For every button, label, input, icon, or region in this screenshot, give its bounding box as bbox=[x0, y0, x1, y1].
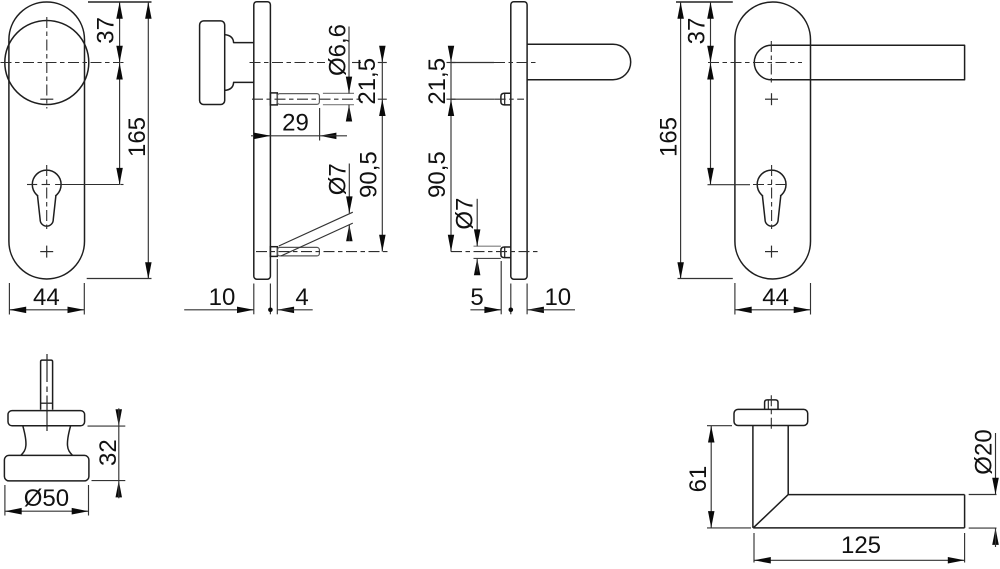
view 1: bottom screw cross bbox=[46, 246, 48, 258]
svg-text:165: 165 bbox=[124, 117, 151, 157]
view 3: bottom screw thin lines bbox=[474, 245, 501, 247]
view 4: top screw cross bbox=[771, 93, 773, 105]
view 3: dim 21,5 arrows at axis bbox=[450, 47, 452, 63]
svg-text:61: 61 bbox=[685, 466, 712, 493]
view 3: bottom screw centerline bbox=[451, 251, 540, 253]
view 1: keyhole PZ bbox=[32, 170, 61, 199]
view 2: dim 10 line and arrow bbox=[184, 309, 254, 311]
svg-text:125: 125 bbox=[841, 532, 881, 559]
view 2: top screw shank bbox=[277, 94, 319, 105]
view 3: dim column 21,5/90,5 bbox=[450, 63, 452, 252]
view 5: knob rose slab bbox=[8, 411, 85, 426]
view 2: dim 29 line and arrows bbox=[251, 135, 271, 137]
svg-text:37: 37 bbox=[683, 18, 710, 45]
view 1: knob horizontal centerline bbox=[1, 62, 120, 64]
svg-text:21,5: 21,5 bbox=[424, 58, 451, 105]
view 3: top screw head bbox=[501, 93, 511, 105]
view 6: spindle centerline bbox=[770, 395, 772, 431]
view 2: bottom screw head bbox=[270, 247, 277, 257]
view 2: knob neck top bbox=[225, 35, 254, 43]
view 3: dim 5 line and arrow bbox=[470, 309, 501, 311]
view 2: dim 4 line and arrow bbox=[277, 307, 294, 314]
view 1: dim 44 extension lines bbox=[8, 283, 10, 315]
svg-text:44: 44 bbox=[762, 284, 789, 311]
view 1: top extension line bbox=[88, 1, 152, 3]
view 4: lever hub and grip bbox=[754, 45, 964, 80]
view 4: dim 44 line bbox=[735, 309, 811, 311]
view 6: dim 125 line bbox=[754, 559, 965, 561]
svg-text:29: 29 bbox=[282, 110, 309, 137]
view 6: lever neck and grip outline bbox=[753, 426, 965, 528]
view 4: dim axis-to-keyhole line bbox=[710, 63, 712, 185]
view 4: hub vertical centerline bbox=[770, 41, 772, 84]
view 3: dim 10 line and arrow bbox=[527, 307, 544, 314]
view 3: top screw centerline / extension bbox=[451, 98, 495, 100]
view 2: bottom screw centerline / 90,5 extension bbox=[256, 251, 388, 253]
view 2: knob axis centerline bbox=[250, 62, 326, 64]
view 5: spindle bbox=[41, 360, 53, 410]
view 1: dim 37 line bbox=[119, 2, 121, 63]
view 5: dim Ø50 extension lines bbox=[4, 485, 6, 516]
view 2: top screw head (M6) bbox=[270, 93, 277, 105]
view 1: bottom extension line for 165 bbox=[87, 278, 152, 280]
view 3: dim 90,5 bottom arrow bbox=[448, 235, 454, 252]
view 6: dim 61 line and arrows bbox=[710, 426, 712, 528]
view 3: lever axis centerline bbox=[451, 62, 494, 64]
view 2: knob head bbox=[200, 21, 225, 105]
view 4: dim 44 extension lines bbox=[734, 283, 736, 315]
svg-text:10: 10 bbox=[544, 284, 571, 311]
view 1: knob plate front - plate outline bbox=[9, 2, 85, 279]
svg-text:Ø6,6: Ø6,6 bbox=[325, 24, 352, 76]
view 2: top screw centerline bbox=[252, 98, 361, 100]
view 2: separator dot bbox=[268, 308, 273, 313]
view 3: lever handle side bbox=[527, 44, 630, 79]
view 5: knob neck left side bbox=[21, 426, 26, 456]
view 2: plate side outline bbox=[254, 2, 271, 280]
view 2: top screw thread continuation thin lines bbox=[323, 92, 354, 94]
view 6: dim 125 extension lines bbox=[753, 533, 755, 563]
view 2: dim Ø6,6 leader line and arrows bbox=[348, 27, 350, 94]
view 4: keyhole PZ bbox=[757, 170, 786, 199]
view 2: dim 29 extension line at screw tip bbox=[319, 108, 321, 141]
view 5: knob head slab bbox=[4, 455, 89, 481]
view 1: top screw cross bbox=[40, 98, 53, 100]
svg-text:Ø7: Ø7 bbox=[324, 163, 351, 195]
view 5: knob neck right side bbox=[67, 426, 72, 456]
view 3: separator dot bbox=[509, 308, 514, 313]
view 4: hub horizontal centerline bbox=[708, 62, 802, 64]
svg-text:Ø50: Ø50 bbox=[24, 485, 69, 512]
view 4: dim 165 line bbox=[680, 2, 682, 279]
svg-text:Ø7: Ø7 bbox=[451, 198, 478, 230]
view 6: spindle stub bbox=[765, 400, 778, 410]
svg-text:32: 32 bbox=[95, 439, 122, 466]
view 6: lever rose slab bbox=[734, 409, 808, 425]
svg-text:5: 5 bbox=[470, 284, 483, 311]
svg-text:10: 10 bbox=[209, 284, 236, 311]
view 1: keyhole horizontal centerline / extension bbox=[27, 184, 37, 186]
view 1: knob vertical centerline bbox=[46, 17, 48, 109]
view 2: knob neck bottom bbox=[225, 82, 254, 90]
view 4: top extension line bbox=[676, 1, 733, 3]
view 6: dim Ø20 line and arrows bbox=[995, 433, 997, 495]
view 2: bottom screw shank bbox=[277, 247, 319, 256]
view 3: plate side outline bbox=[511, 2, 527, 280]
view 5: dim 32 extension lines bbox=[88, 425, 126, 427]
view 3: dim 5/10 extension lines bbox=[500, 261, 502, 314]
view 5: spindle tick bbox=[41, 402, 53, 404]
view 2: dim 10/4 extension lines bbox=[253, 284, 255, 315]
svg-text:165: 165 bbox=[655, 117, 682, 157]
view 1: dim 44 line with arrows bbox=[9, 309, 84, 311]
view 5: dim 32 line and arrows bbox=[118, 426, 120, 481]
view 4: bottom extension line bbox=[678, 278, 733, 280]
view 5: spindle centerline bbox=[46, 354, 48, 382]
view 4: plate outline bbox=[735, 2, 811, 279]
view 6: dim 61 extension lines bbox=[707, 425, 732, 427]
view 1: dim axis-to-keyhole line bbox=[119, 63, 121, 185]
svg-text:Ø20: Ø20 bbox=[970, 429, 997, 474]
svg-text:44: 44 bbox=[33, 284, 60, 311]
view 4: dim 37 line bbox=[710, 2, 712, 63]
svg-text:90,5: 90,5 bbox=[424, 151, 451, 198]
svg-text:37: 37 bbox=[93, 17, 120, 44]
view 2: dim Ø7 leader and arrows bbox=[348, 164, 350, 214]
view 3: bottom screw head bbox=[501, 247, 511, 258]
view 4: bottom screw cross bbox=[771, 246, 773, 258]
view 1: knob circle Ø50 bbox=[5, 21, 89, 105]
view 2: dim Ø7 oblique extension lines bbox=[279, 212, 353, 246]
svg-text:4: 4 bbox=[295, 284, 308, 311]
view 4: extension line to keyhole bbox=[708, 184, 751, 186]
view 1: dim 165 line bbox=[147, 2, 149, 279]
view 4: keyhole horizontal centerline bbox=[753, 184, 786, 186]
view 6: dim Ø20 extension lines bbox=[969, 494, 997, 496]
svg-text:90,5: 90,5 bbox=[356, 151, 383, 198]
view 2: dim 21,5 arrows at axis bbox=[381, 47, 383, 63]
svg-text:21,5: 21,5 bbox=[354, 58, 381, 105]
view 2: dim line 21,5/90,5 column bbox=[381, 63, 383, 252]
view 5: dim Ø50 line bbox=[5, 510, 89, 512]
view 2: dim 90,5 bottom arrow bbox=[379, 235, 386, 252]
view 3: dim Ø7 leader and arrows bbox=[476, 199, 478, 246]
